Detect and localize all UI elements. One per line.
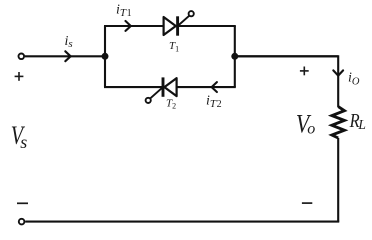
resistor R_L: [332, 107, 345, 138]
current arrow i_T2: [212, 82, 217, 92]
current arrow i_s: [65, 51, 70, 61]
current arrow i_T1: [126, 21, 131, 31]
wire: bottom branch right segment: [177, 86, 236, 88]
label V_s: [11, 121, 26, 150]
svg-text:s: s: [20, 132, 27, 152]
wire: left vertical of parallel pair: [104, 26, 106, 87]
wire: top branch left segment: [104, 25, 165, 27]
wire: bottom return: [25, 221, 339, 223]
wire: load bottom vertical: [337, 138, 339, 222]
terminal: source positive: [19, 54, 25, 60]
node: left junction: [102, 53, 109, 60]
wire: bottom branch left segment: [104, 86, 163, 88]
thyristor T1: [164, 11, 194, 36]
polarity - (source): [17, 202, 28, 204]
terminal: source negative: [19, 219, 25, 225]
wire: top branch right segment: [178, 25, 236, 27]
current arrow i_O: [333, 70, 343, 75]
polarity + (source): [15, 72, 24, 81]
label R_L: [349, 110, 360, 133]
node: right junction: [231, 53, 238, 60]
wire: load top vertical: [235, 56, 338, 107]
wire: to load: [235, 55, 338, 57]
thyristor T2: [146, 77, 177, 103]
wire: source top lead: [25, 55, 105, 57]
label V_o: [296, 111, 311, 139]
svg-text:L: L: [357, 117, 366, 132]
svg-text:o: o: [307, 121, 315, 138]
polarity + (load): [300, 67, 309, 76]
polarity - (load): [302, 202, 312, 204]
wire: right vertical of parallel pair: [234, 26, 236, 87]
